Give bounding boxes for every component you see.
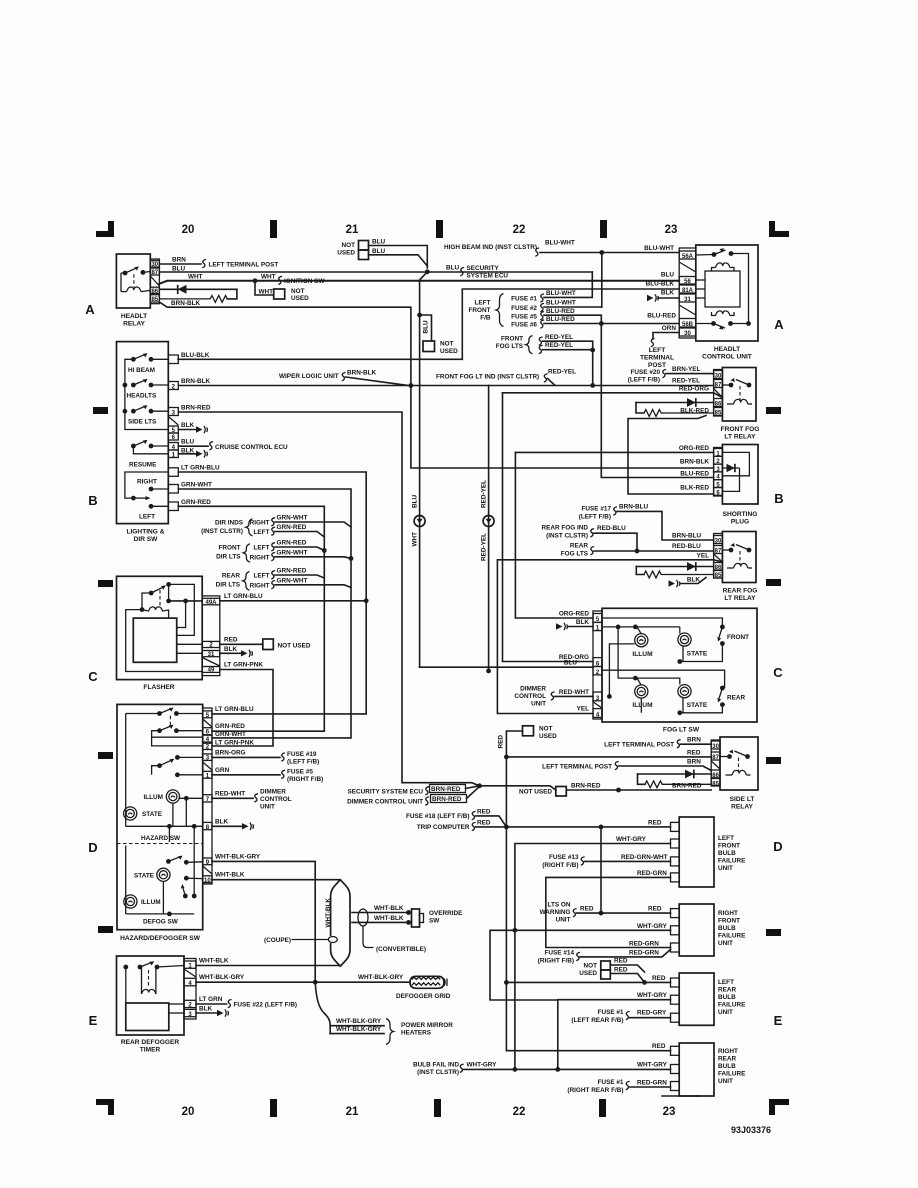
svg-text:(CONVERTIBLE): (CONVERTIBLE) — [376, 946, 426, 953]
left margin tick CD — [98, 752, 113, 759]
svg-text:LT GRN-BLU: LT GRN-BLU — [181, 465, 220, 472]
svg-text:OVERRIDE: OVERRIDE — [429, 910, 463, 917]
relay FRONT FOG LT RELAY body — [722, 368, 756, 422]
wire BLU-RED fuse6 to 56B — [544, 323, 679, 325]
svg-text:30: 30 — [151, 262, 158, 268]
LEFT FRONT BULB FAILURE UNIT name — [718, 835, 746, 872]
svg-text:TERMINAL: TERMINAL — [640, 355, 674, 362]
svg-text:LEFT: LEFT — [254, 529, 270, 536]
connector squiggle fuse5 right — [281, 770, 285, 778]
junction lts-on riser top — [599, 825, 604, 830]
svg-text:FUSE #5: FUSE #5 — [287, 768, 313, 775]
svg-text:FRONT FOG: FRONT FOG — [721, 426, 760, 433]
svg-text:BLU-RED: BLU-RED — [546, 308, 575, 315]
svg-text:STATE: STATE — [142, 811, 163, 818]
wire RED-YEL fog lt lower — [543, 349, 593, 351]
svg-text:TIMER: TIMER — [140, 1047, 161, 1054]
pin 1 fog sw — [593, 622, 602, 631]
switch RESUME — [131, 440, 168, 454]
svg-text:NOT: NOT — [291, 288, 305, 295]
svg-text:BLK: BLK — [687, 576, 701, 583]
pin 5 lighting sw — [168, 426, 178, 434]
connector squiggle ignition sw — [278, 276, 282, 284]
svg-text:GRN-RED: GRN-RED — [277, 524, 307, 531]
wire RED-ORG to fog sw pin6 — [503, 393, 594, 662]
pin 56 — [679, 277, 696, 286]
svg-text:FUSE #5: FUSE #5 — [511, 313, 537, 320]
svg-text:HEATERS: HEATERS — [401, 1030, 432, 1037]
svg-text:(LEFT F/B): (LEFT F/B) — [579, 513, 611, 520]
pin stub RED-GRN lf — [671, 873, 680, 882]
svg-text:BLU-BLK: BLU-BLK — [181, 352, 210, 359]
svg-text:LEFT TERMINAL POST: LEFT TERMINAL POST — [604, 742, 674, 749]
HEADLT CONTROL UNIT inner box — [705, 271, 740, 307]
pin 2 defog timer — [184, 1000, 196, 1008]
svg-text:BULB: BULB — [718, 994, 736, 1001]
svg-text:HEADLTS: HEADLTS — [127, 393, 157, 400]
pin 2 lighting sw — [168, 382, 178, 391]
svg-text:STATE: STATE — [134, 872, 155, 879]
FRONT FOG LT RELAY name — [721, 426, 760, 441]
label RED-YEL circle connector — [481, 480, 495, 561]
svg-text:RED-WHT: RED-WHT — [559, 689, 589, 696]
wire BLK-RED from relay85 to shorting pin6 — [628, 416, 714, 495]
connector squiggle fuse19 — [281, 753, 285, 761]
wire lamp to pin7 — [180, 796, 203, 826]
wire RED-WHT hazard pin7 — [212, 797, 253, 799]
wire defog internal bottom bus — [126, 826, 195, 916]
pin stub WHT-GRY lf — [671, 839, 680, 848]
svg-text:BLU-WHT: BLU-WHT — [644, 245, 674, 252]
svg-text:FUSE #2: FUSE #2 — [511, 305, 537, 312]
wire GRN hazard pin1 — [212, 774, 280, 776]
svg-text:USED: USED — [440, 348, 458, 355]
svg-text:85: 85 — [715, 411, 722, 417]
switch hazard row3 — [152, 755, 203, 775]
switch hazard row2 — [157, 716, 203, 733]
HEADLT CONTROL UNIT inner pin stubs — [696, 280, 705, 298]
label FUSE #20 (LEFT F/B) — [628, 369, 661, 384]
svg-text:GRN-WHT: GRN-WHT — [277, 549, 308, 556]
brace power mirror heaters — [386, 1019, 393, 1045]
wire YEL to rear fog relay slot — [497, 560, 722, 714]
connector NOT USED flasher — [263, 639, 274, 650]
junction lts-on riser bottom — [599, 911, 604, 916]
HEADLT RELAY internal dashed link — [133, 274, 135, 287]
REAR FOG LT RELAY name — [723, 588, 758, 603]
ground G1 at pin31 — [647, 290, 679, 302]
pin 6 lighting sw — [168, 433, 178, 441]
svg-text:(INST CLSTR): (INST CLSTR) — [546, 533, 588, 540]
svg-text:YEL: YEL — [577, 706, 590, 713]
pin 3 lighting sw — [168, 408, 178, 417]
FLASHER inner unit box — [133, 618, 176, 662]
svg-text:BLU: BLU — [172, 266, 186, 273]
svg-text:56: 56 — [684, 279, 691, 285]
wire RED to left front bulb unit — [506, 826, 670, 828]
svg-text:DIMMER: DIMMER — [260, 788, 286, 795]
svg-text:BRN-BLK: BRN-BLK — [680, 459, 709, 466]
wire BRN-BLK pin85 run — [159, 302, 411, 386]
oval coupe split — [328, 937, 337, 943]
wire ORG-RED to shorting pin1 — [515, 451, 713, 453]
svg-text:REAR: REAR — [718, 1056, 736, 1063]
svg-text:GRN-WHT: GRN-WHT — [181, 482, 212, 489]
ground G7 fog sw pin1 — [556, 619, 593, 630]
svg-text:30: 30 — [715, 539, 722, 545]
connector squiggle security ecu — [460, 268, 464, 276]
connector squiggle dir inds right — [271, 518, 275, 526]
wire BLU-WHT fuse1 — [544, 272, 592, 297]
wire BLU-RED vertical to shorting plug pin4 — [601, 324, 713, 478]
page margin: top tick 21/22 — [436, 220, 443, 238]
lamp STATE hazard — [124, 807, 163, 820]
svg-text:RED-YEL: RED-YEL — [545, 342, 573, 349]
svg-text:RIGHT: RIGHT — [137, 479, 157, 486]
lamp ILLUM hazard — [143, 790, 179, 803]
junction grn-red fan — [322, 548, 327, 553]
svg-text:(RIGHT F/B): (RIGHT F/B) — [538, 957, 574, 964]
svg-text:BLU: BLU — [412, 494, 419, 508]
svg-text:BULB: BULB — [718, 850, 736, 857]
svg-text:FUSE #6: FUSE #6 — [511, 322, 537, 329]
SIDE LT RELAY internal coil — [726, 770, 751, 775]
wire GRN-WHT rear dir right — [275, 585, 351, 588]
svg-text:RED: RED — [580, 906, 594, 913]
label DIR INDS (INST CLSTR) — [201, 520, 244, 535]
wire WHT-BLK-GRY defog timer pin4 long — [196, 981, 409, 983]
right margin tick CD — [766, 757, 781, 764]
connector squiggle dimmer control fog — [551, 692, 555, 700]
label NOT USED red pair — [579, 963, 597, 978]
svg-text:(RIGHT F/B): (RIGHT F/B) — [287, 776, 323, 783]
pin 30 side lt relay — [711, 741, 720, 750]
svg-text:A: A — [85, 302, 95, 317]
connector squiggle fuse13 — [581, 857, 585, 865]
switch FOG LT SW box — [602, 608, 757, 722]
wire RED-GRN fuse14 — [580, 950, 671, 957]
svg-text:20: 20 — [182, 1106, 195, 1118]
svg-text:BLK: BLK — [661, 290, 675, 297]
pin 86 front fog relay — [714, 399, 723, 408]
svg-text:RIGHT: RIGHT — [718, 910, 738, 917]
wire RED-BLU rear fog ind — [594, 533, 637, 551]
wire ORN pin30 to left terminal post — [653, 333, 679, 340]
svg-text:86: 86 — [151, 289, 158, 295]
svg-text:GRN-WHT: GRN-WHT — [277, 515, 308, 522]
svg-text:CONTROL: CONTROL — [514, 693, 546, 700]
pin 6 fog sw — [593, 658, 602, 668]
SIDE LT RELAY dashed link — [738, 758, 740, 772]
pin 3 defog timer — [184, 1009, 196, 1017]
svg-text:DEFOG SW: DEFOG SW — [143, 919, 179, 926]
svg-text:FLASHER: FLASHER — [143, 684, 174, 691]
svg-text:FRONT: FRONT — [718, 918, 740, 925]
REAR DEFOGGER TIMER internal coil — [142, 967, 156, 994]
svg-text:BRN-BLU: BRN-BLU — [672, 533, 701, 540]
pin 1 shorting plug — [714, 449, 723, 458]
pin stub RED lf — [671, 822, 680, 831]
connector squiggle front dir left — [271, 543, 275, 551]
HEADLT RELAY internal coil — [121, 273, 150, 292]
REAR FOG LT RELAY internal switch — [722, 543, 751, 552]
svg-text:A: A — [774, 317, 784, 332]
pin GRN-RED lighting sw — [168, 502, 178, 511]
svg-text:C: C — [773, 665, 783, 680]
svg-text:BRN-BLK: BRN-BLK — [171, 300, 200, 307]
wire RED-YEL ind to relay87 — [411, 379, 714, 386]
connector squiggle rear dir right — [271, 581, 275, 589]
svg-text:FOG LTS: FOG LTS — [561, 550, 589, 557]
connector squiggle fuse14 — [576, 952, 580, 960]
page margin: top-right corner mark — [769, 221, 789, 237]
pin 86 side lt relay — [711, 770, 720, 779]
wire LT GRN-PNK flasher 49 — [212, 670, 273, 747]
junction brn-blk wiper at ind row — [409, 383, 414, 388]
pin 49A flasher — [202, 598, 220, 606]
svg-text:ORN: ORN — [662, 325, 677, 332]
wire BLU upper from connector — [369, 246, 428, 269]
pin 49 flasher — [202, 667, 220, 674]
label FUSE #14 (RIGHT F/B) — [538, 949, 575, 964]
svg-text:REAR: REAR — [718, 987, 736, 994]
svg-text:WIPER LOGIC UNIT: WIPER LOGIC UNIT — [279, 373, 339, 380]
wire BRN-BLU fuse17 to rear fog relay 30 — [617, 511, 714, 540]
svg-text:NOT: NOT — [584, 963, 598, 970]
lamp STATE front fog — [678, 633, 708, 658]
svg-text:86: 86 — [715, 402, 722, 408]
switch SIDE LTS — [123, 405, 169, 414]
junction brn-red tap — [616, 788, 621, 793]
svg-text:HAZARD/DEFOGGER SW: HAZARD/DEFOGGER SW — [120, 935, 201, 942]
FRONT FOG LT RELAY internal switch — [722, 378, 751, 387]
SHORTING PLUG internal link pin1-pin4 — [722, 452, 749, 475]
svg-text:B: B — [88, 493, 97, 508]
wire BLU-RED fuse5 — [544, 315, 601, 323]
HEADLT RELAY internal switch — [121, 267, 150, 276]
svg-text:BULB: BULB — [718, 925, 736, 932]
svg-text:DIR SW: DIR SW — [134, 536, 159, 543]
left margin tick AB — [93, 407, 108, 414]
page margin: top-left corner mark — [96, 221, 114, 237]
label REAR FOG LTS — [561, 542, 589, 557]
svg-text:85: 85 — [712, 781, 719, 787]
svg-text:BLU: BLU — [372, 239, 386, 246]
connector squiggle fuse20 — [662, 370, 666, 378]
svg-text:B: B — [774, 491, 783, 506]
svg-text:FRONT FOG LT IND (INST CLSTR): FRONT FOG LT IND (INST CLSTR) — [436, 374, 539, 381]
svg-text:SECURITY SYSTEM ECU: SECURITY SYSTEM ECU — [347, 789, 423, 796]
diode D5 side lt relay — [638, 770, 712, 779]
SIDE LT RELAY name — [730, 796, 755, 811]
svg-text:(INST CLSTR): (INST CLSTR) — [201, 528, 243, 535]
wire RED-YEL vertical to ind row — [592, 350, 594, 385]
REAR FOG LT RELAY internal coil — [727, 563, 752, 568]
svg-text:LT GRN-PNK: LT GRN-PNK — [224, 662, 263, 669]
svg-text:GRN-RED: GRN-RED — [181, 499, 211, 506]
FLASHER pin49 loop — [126, 610, 203, 672]
junction red-yel / fog vertical — [590, 383, 595, 388]
connector squiggle high beam ind — [535, 248, 539, 256]
svg-text:BLU-WHT: BLU-WHT — [546, 300, 576, 307]
svg-text:RELAY: RELAY — [731, 804, 753, 811]
pin 4 fog sw — [593, 709, 602, 719]
svg-text:LT GRN-PNK: LT GRN-PNK — [215, 739, 254, 746]
pin 2 hazard — [203, 743, 212, 751]
relay HEADLT RELAY pin column — [150, 259, 159, 304]
svg-text:RED-YEL: RED-YEL — [481, 480, 488, 508]
pin slot diagonal flasher — [202, 658, 220, 667]
wire power mirror curve — [315, 982, 330, 1033]
svg-text:BRN: BRN — [687, 759, 701, 766]
svg-text:LT GRN: LT GRN — [199, 996, 223, 1003]
wire LT GRN defog timer pin2 — [196, 1003, 227, 1005]
svg-text:BLU-RED: BLU-RED — [546, 316, 575, 323]
svg-text:LT RELAY: LT RELAY — [724, 434, 756, 441]
wire ORG-RED to fog sw pin5 — [515, 452, 593, 618]
pin 4 lighting sw — [168, 443, 178, 452]
svg-text:RIGHT: RIGHT — [250, 582, 270, 589]
svg-text:81A: 81A — [682, 288, 694, 294]
svg-text:RED: RED — [477, 808, 491, 815]
svg-text:REAR FOG: REAR FOG — [723, 588, 758, 595]
svg-text:31: 31 — [208, 652, 215, 658]
pin 7 hazard — [203, 795, 212, 803]
junction fuse5/fuse6 — [599, 321, 604, 326]
svg-text:23: 23 — [665, 224, 678, 236]
label FRONT DIR LTS — [216, 544, 241, 560]
relay HEADLT RELAY body — [116, 254, 150, 308]
pin 85 HEADLT RELAY — [150, 295, 159, 304]
svg-text:BLU-BLK: BLU-BLK — [646, 281, 675, 288]
wire BLU to fog sw pin2 — [420, 666, 593, 668]
svg-text:RED-YEL: RED-YEL — [672, 378, 700, 385]
pin slot diagonal hazard top — [203, 719, 212, 727]
svg-text:30: 30 — [715, 374, 722, 380]
FRONT FOG LT RELAY pin column — [714, 370, 723, 417]
connector squiggle fog lt upper — [539, 337, 543, 345]
svg-text:SECURITY: SECURITY — [467, 265, 500, 272]
pin 2 flasher — [202, 641, 220, 648]
wire BRN-ORG hazard pin3 — [212, 756, 280, 758]
svg-text:FOG LTS: FOG LTS — [496, 343, 524, 350]
connector squiggle fuse2 — [540, 303, 544, 311]
label FUSE #1 (LEFT REAR F/B) — [571, 1009, 624, 1024]
relay SIDE LT RELAY body — [720, 737, 758, 790]
connector squiggle fuse22 — [228, 1000, 232, 1008]
connector NOT USED (red bus top) — [523, 726, 534, 736]
wire WHT-GRY bulb fail to rr — [464, 1068, 671, 1070]
pin 1 lighting sw — [168, 450, 178, 459]
wire RED trip computer — [476, 826, 507, 828]
HEADLT CONTROL UNIT top coil — [712, 263, 735, 271]
ground G3 pin1 — [178, 447, 207, 457]
pin 86 HEADLT RELAY — [150, 287, 159, 295]
svg-text:POWER MIRROR: POWER MIRROR — [401, 1022, 453, 1029]
switch defog — [166, 856, 203, 865]
wire flasher pin2 stub — [177, 643, 203, 645]
svg-text:WHT-BLK: WHT-BLK — [199, 958, 229, 965]
label NOT USED top connector — [337, 242, 355, 257]
svg-text:FUSE #14: FUSE #14 — [545, 949, 575, 956]
right margin tick AB — [766, 407, 781, 414]
svg-text:BLU: BLU — [423, 320, 430, 334]
svg-text:49: 49 — [208, 668, 215, 674]
svg-text:(RIGHT F/B): (RIGHT F/B) — [542, 862, 578, 869]
svg-text:FRONT: FRONT — [718, 843, 740, 850]
wire RED-WHT to fog sw pin3 — [555, 695, 594, 697]
svg-text:GRN-RED: GRN-RED — [277, 540, 307, 547]
connector squiggle fuse6 — [540, 320, 544, 328]
svg-text:RED: RED — [477, 819, 491, 826]
wire GRN-WHT dir inds right — [275, 522, 351, 527]
svg-text:WHT-BLK: WHT-BLK — [325, 898, 332, 928]
svg-text:ILLUM: ILLUM — [141, 899, 161, 906]
svg-text:RED-GRN: RED-GRN — [629, 950, 659, 957]
svg-text:RED-YEL: RED-YEL — [545, 334, 573, 341]
pin 56B — [679, 319, 696, 328]
wire WHT-BLK-GRY hazard pin9 — [212, 861, 315, 982]
svg-text:E: E — [774, 1013, 783, 1028]
wire RED side lt 87 — [506, 756, 711, 758]
svg-text:USED: USED — [539, 733, 557, 740]
svg-text:HI BEAM: HI BEAM — [128, 367, 155, 374]
REAR DEFOGGER TIMER inner box — [126, 1003, 169, 1031]
wire defog timer pin3 stub — [169, 1012, 184, 1014]
svg-text:F/B: F/B — [480, 315, 491, 322]
connector NOT USED (brn-red) — [556, 787, 567, 797]
svg-text:FUSE #17: FUSE #17 — [582, 505, 612, 512]
wire RED flasher pin2 — [220, 643, 263, 645]
label NOT USED red bus — [539, 726, 557, 741]
svg-text:BLK: BLK — [224, 646, 238, 653]
svg-text:(LEFT F/B): (LEFT F/B) — [287, 758, 319, 765]
svg-text:BLK-RED: BLK-RED — [680, 408, 709, 415]
svg-text:FUSE #13: FUSE #13 — [549, 854, 579, 861]
svg-text:GRN-WHT: GRN-WHT — [215, 731, 246, 738]
lamp ILLUM rear fog — [632, 685, 653, 709]
resistor R4 side lt relay — [638, 774, 712, 788]
diode D2 front fog relay — [636, 398, 714, 407]
svg-text:FRONT: FRONT — [218, 544, 240, 551]
lamp STATE defog — [134, 868, 170, 881]
svg-text:BRN-RED: BRN-RED — [571, 783, 601, 790]
switch hazard row1 — [126, 708, 203, 716]
connector NOT USED (red pair) — [601, 961, 611, 979]
svg-text:BLU: BLU — [446, 265, 460, 272]
svg-text:WHT-GRY: WHT-GRY — [637, 992, 668, 999]
svg-text:WHT-GRY: WHT-GRY — [637, 1062, 668, 1069]
svg-text:RED-GRN-WHT: RED-GRN-WHT — [621, 854, 668, 861]
svg-text:IGNITION SW: IGNITION SW — [284, 278, 325, 285]
pin 6 shorting plug — [714, 488, 723, 497]
pin stub RED rr — [671, 1046, 680, 1055]
svg-text:ILLUM: ILLUM — [632, 651, 653, 658]
svg-text:ILLUM: ILLUM — [632, 702, 653, 709]
wire BLU pin4 cruise — [178, 445, 208, 447]
brace front fog lts — [526, 336, 533, 354]
svg-text:BRN-RED: BRN-RED — [672, 782, 702, 789]
left margin tick DE — [98, 926, 113, 933]
svg-text:GRN-RED: GRN-RED — [277, 568, 307, 575]
junction blu not-used tap — [417, 313, 422, 318]
REAR DEFOGGER TIMER internal switch — [123, 961, 184, 1003]
wire lighting sw common bus — [125, 359, 168, 429]
svg-text:LEFT: LEFT — [475, 300, 491, 307]
wire hazard row2 to pins 4 and 2 — [152, 731, 203, 746]
svg-text:HIGH BEAM IND (INST CLSTR): HIGH BEAM IND (INST CLSTR) — [444, 244, 537, 251]
svg-text:RED-BLU: RED-BLU — [672, 543, 701, 550]
